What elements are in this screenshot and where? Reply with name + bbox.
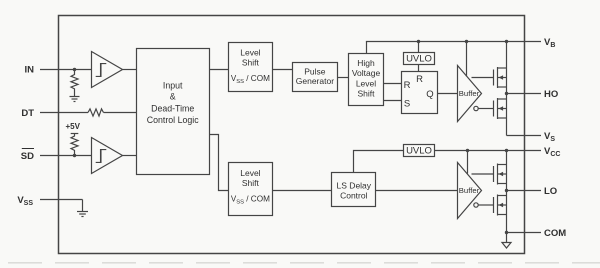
wire UVLO1 to latch R xyxy=(418,65,420,72)
svg-text:R: R xyxy=(416,74,423,85)
wire LO pin xyxy=(507,190,542,192)
svg-text:IN: IN xyxy=(25,65,35,76)
svg-text:VSS / COM: VSS / COM xyxy=(231,195,270,206)
wire PG to HVLS xyxy=(338,77,349,79)
scan artifact line bottom xyxy=(8,262,600,264)
svg-text:Q: Q xyxy=(426,89,433,100)
wire logic to LS2 (L-shaped) xyxy=(210,135,229,191)
svg-text:High: High xyxy=(357,58,375,68)
block Input & Dead-Time Control Logic xyxy=(137,49,210,175)
wire UVLO1 to rail xyxy=(418,42,420,53)
transistor M1 (HO pull-up) xyxy=(494,67,507,88)
wire VCC rail right xyxy=(435,150,542,152)
wire buffer2 to M3 gate xyxy=(472,173,494,175)
wire VCC rail left to LS delay xyxy=(354,151,404,173)
svg-text:R: R xyxy=(404,80,411,91)
svg-text:Shift: Shift xyxy=(242,58,260,68)
node VB vertical junction xyxy=(505,40,508,43)
block Level Shift VSS/COM (low side) xyxy=(229,163,273,216)
wire logic to LS1 xyxy=(210,69,229,71)
svg-text:Buffer: Buffer xyxy=(459,186,480,195)
svg-text:Shift: Shift xyxy=(242,178,260,188)
wire latch Q to buffer1 xyxy=(438,93,458,95)
wire HO pin xyxy=(507,93,542,95)
+5V supply tick xyxy=(71,133,79,135)
transistor M2 (HO pull-down) xyxy=(494,98,507,119)
wire VSS pin xyxy=(40,199,83,201)
svg-text:UVLO: UVLO xyxy=(406,146,432,157)
node buffer2 power junction xyxy=(466,149,469,152)
node IN junction xyxy=(73,68,76,71)
wire bubble to M2 gate xyxy=(478,108,493,110)
wire LS2 to LS delay xyxy=(273,190,332,192)
ground IN resistor xyxy=(70,97,80,102)
resistor R-IN pulldown xyxy=(71,70,78,97)
wire SD pin xyxy=(40,155,92,157)
svg-text:LO: LO xyxy=(544,186,557,197)
wire HVLS R to latch xyxy=(384,83,402,85)
node buffer1 power rail junction xyxy=(465,40,468,43)
svg-text:LS Delay: LS Delay xyxy=(337,180,372,190)
schmitt buffer U2 (SD) xyxy=(92,138,123,174)
svg-text:Level: Level xyxy=(240,48,260,58)
label latch pins xyxy=(404,74,434,110)
svg-text:&: & xyxy=(170,91,176,101)
wire LS1 to pulse generator xyxy=(273,69,293,71)
wire HVLS top to VB rail xyxy=(366,42,368,54)
svg-text:Control Logic: Control Logic xyxy=(147,115,199,125)
svg-text:VSS: VSS xyxy=(17,195,33,207)
wire buffer2 power from VCC xyxy=(467,151,469,174)
svg-text:Voltage: Voltage xyxy=(352,68,381,78)
svg-text:SD: SD xyxy=(21,151,34,162)
wire DT pin xyxy=(40,112,88,114)
block Level Shift VSS/COM (high side) xyxy=(229,43,273,92)
svg-text:S: S xyxy=(404,99,410,110)
svg-text:Level: Level xyxy=(356,78,376,88)
svg-text:VS: VS xyxy=(544,131,555,143)
svg-text:DT: DT xyxy=(21,108,34,119)
wire IN pin xyxy=(40,69,92,71)
svg-text:Dead-Time: Dead-Time xyxy=(151,103,194,113)
block LS Delay Control xyxy=(332,173,376,207)
svg-text:Level: Level xyxy=(240,168,260,178)
wire VSS ground drop xyxy=(82,200,84,212)
IC outline border xyxy=(59,16,525,254)
transistor M4 (LO pull-down) xyxy=(494,195,507,216)
svg-text:Shift: Shift xyxy=(357,89,375,99)
node HO tap xyxy=(505,92,508,95)
wire buffer1 power from VB xyxy=(466,42,468,77)
block Pulse Generator xyxy=(293,63,338,92)
svg-text:+5V: +5V xyxy=(66,122,81,131)
resistor DT series xyxy=(88,109,104,116)
svg-text:HO: HO xyxy=(544,89,558,100)
node LO tap xyxy=(505,189,508,192)
wire LS delay to buffer2 xyxy=(376,190,458,192)
svg-text:Generator: Generator xyxy=(296,76,334,86)
node VCC vertical junction xyxy=(505,149,508,152)
wire high-side totem vertical xyxy=(506,42,508,136)
buffer U3 high side xyxy=(458,66,482,122)
wire bubble2 to M4 gate xyxy=(478,204,493,206)
wire VB rail xyxy=(366,41,541,43)
svg-text:VSS / COM: VSS / COM xyxy=(231,74,270,85)
svg-text:Buffer: Buffer xyxy=(459,89,480,98)
wire buffer1 out xyxy=(123,69,137,71)
svg-text:COM: COM xyxy=(544,228,566,239)
node UVLO1 rail junction xyxy=(417,40,420,43)
svg-text:VCC: VCC xyxy=(544,146,560,158)
node SD junction xyxy=(73,154,76,157)
wire VS pin xyxy=(507,135,542,137)
ground COM xyxy=(502,243,511,249)
wire HVLS S to latch xyxy=(384,100,402,102)
svg-text:VB: VB xyxy=(544,37,555,49)
block UVLO low side xyxy=(404,145,435,157)
block UVLO high side xyxy=(404,53,435,65)
block High Voltage Level Shift xyxy=(349,54,384,106)
block RS latch xyxy=(402,72,438,114)
wire low-side totem vertical xyxy=(506,151,508,243)
ground VSS xyxy=(77,212,88,217)
svg-text:Control: Control xyxy=(340,190,368,200)
wire buffer2 out xyxy=(123,155,137,157)
svg-text:Input: Input xyxy=(163,80,183,90)
schmitt buffer U1 (IN) xyxy=(92,52,123,88)
resistor R-SD pullup xyxy=(71,134,78,156)
wire COM pin xyxy=(507,232,542,234)
node COM tap xyxy=(505,231,508,234)
buffer U4 low side xyxy=(458,163,482,219)
wire DT to logic box xyxy=(104,112,137,114)
svg-text:UVLO: UVLO xyxy=(406,53,432,64)
inverter bubble high side xyxy=(474,106,478,110)
wire buffer1 to M1 gate xyxy=(472,77,494,79)
inverter bubble low side xyxy=(474,203,478,207)
transistor M3 (LO pull-up) xyxy=(494,164,507,185)
